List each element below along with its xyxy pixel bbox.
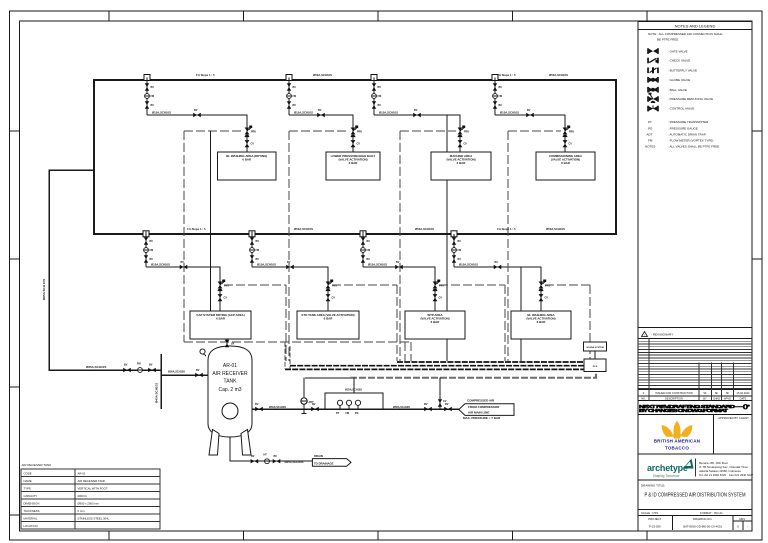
svg-text:FM: FM — [458, 249, 462, 252]
svg-text:FM: FM — [378, 95, 382, 98]
svg-text:TYPE: TYPE — [24, 487, 31, 491]
svg-text:BV: BV — [499, 104, 503, 107]
svg-text:BV: BV — [424, 403, 428, 406]
svg-text:1% Slope 1 : 5: 1% Slope 1 : 5 — [497, 73, 516, 77]
svg-text:Ø50A,SCH10S: Ø50A,SCH10S — [313, 73, 332, 77]
svg-text:NOTES: NOTES — [645, 144, 655, 148]
svg-text:Ø50A,SCH10S: Ø50A,SCH10S — [415, 227, 434, 231]
svg-text:BV: BV — [367, 258, 371, 261]
svg-text:SV: SV — [231, 343, 235, 346]
svg-text:6 BAR: 6 BAR — [537, 320, 547, 324]
svg-text:THICKNESS: THICKNESS — [24, 509, 40, 513]
svg-text:Ø65A,SCH10S: Ø65A,SCH10S — [393, 406, 410, 409]
svg-text:BE PTFE FREE: BE PTFE FREE — [657, 37, 678, 41]
svg-text:PRV: PRV — [569, 131, 574, 134]
svg-text:: BUTTERFLY VALVE: : BUTTERFLY VALVE — [668, 69, 697, 73]
svg-text:-: - — [747, 525, 748, 529]
svg-text:LOCATION: LOCATION — [24, 524, 38, 528]
svg-text:BV: BV — [396, 261, 400, 264]
svg-text:CV: CV — [464, 143, 468, 146]
svg-text:: FLOW METER (VORTEX TYPE): : FLOW METER (VORTEX TYPE) — [668, 139, 713, 143]
svg-text:BV: BV — [149, 364, 153, 367]
svg-text:CV: CV — [545, 297, 549, 300]
svg-text:FM: FM — [346, 412, 350, 415]
svg-text:6 BAR: 6 BAR — [324, 317, 334, 321]
svg-text:Tel +62 21 2940 6226 Fax 02: Tel +62 21 2940 6226 Fax 021 2940 6227 — [699, 473, 754, 477]
svg-text:FM: FM — [137, 363, 141, 366]
svg-text:BV: BV — [293, 104, 297, 107]
svg-text:P-23-039: P-23-039 — [649, 525, 661, 529]
svg-text:SCADA SYSTEM: SCADA SYSTEM — [586, 346, 603, 349]
svg-text:: BALL VALVE: : BALL VALVE — [668, 88, 687, 92]
svg-text:BV: BV — [150, 240, 154, 243]
svg-text:Shaping Tomorrow: Shaping Tomorrow — [653, 474, 680, 478]
svg-text:Cap. 2 m3: Cap. 2 m3 — [218, 387, 241, 393]
svg-text:2000 ltr: 2000 ltr — [78, 494, 87, 498]
svg-text:Ø25A,SCH10S: Ø25A,SCH10S — [285, 460, 304, 464]
svg-text:DRAWING TITLE:: DRAWING TITLE: — [641, 484, 665, 488]
svg-text:FM: FM — [499, 95, 503, 98]
svg-text:Ø15A,SCH10S: Ø15A,SCH10S — [151, 263, 170, 267]
svg-text:: PRESSURE GAUGE: : PRESSURE GAUGE — [668, 127, 698, 131]
svg-text:BV: BV — [196, 369, 200, 372]
svg-text:BRITISH AMERICAN: BRITISH AMERICAN — [654, 439, 701, 444]
svg-text:Ø50A,SCH10S: Ø50A,SCH10S — [168, 371, 185, 374]
svg-text:: CONTROL VALVE: : CONTROL VALVE — [668, 106, 694, 110]
svg-text:1% Slope 1 : 5: 1% Slope 1 : 5 — [196, 73, 215, 77]
svg-text:APVD: APVD — [724, 396, 731, 400]
svg-text:6 BAR: 6 BAR — [561, 161, 571, 165]
svg-text:: PRESSURE REDUCING VALVE: : PRESSURE REDUCING VALVE — [668, 97, 713, 101]
svg-text:REV: REV — [740, 517, 746, 521]
svg-text:FM: FM — [151, 95, 155, 98]
svg-text:6 mm: 6 mm — [78, 509, 86, 513]
svg-text:BV: BV — [458, 258, 462, 261]
svg-text:HT: HT — [264, 454, 268, 457]
svg-text:BV: BV — [274, 455, 278, 458]
svg-text:Ø15A,SCH10S: Ø15A,SCH10S — [379, 111, 398, 115]
svg-text:ADT: ADT — [647, 133, 653, 137]
svg-text:Ø15A,SCH10S: Ø15A,SCH10S — [152, 111, 171, 115]
svg-text:DESCRIPTION: DESCRIPTION — [665, 396, 683, 400]
svg-text:BAT-IDN0-OD-ME-05-CA-4001: BAT-IDN0-OD-ME-05-CA-4001 — [683, 525, 722, 529]
svg-text:BY: BY — [703, 396, 707, 400]
svg-text:Ø50A,SCH10S: Ø50A,SCH10S — [294, 227, 313, 231]
svg-text:DRAWING NO.: DRAWING NO. — [693, 517, 712, 521]
svg-text:STAINLESS STEEL 304L: STAINLESS STEEL 304L — [78, 517, 110, 521]
svg-text:BV: BV — [150, 258, 154, 261]
svg-text:Ø15A,SCH10S: Ø15A,SCH10S — [500, 111, 519, 115]
svg-text:Ø900 x 2000 mm: Ø900 x 2000 mm — [78, 502, 100, 506]
svg-text:BV: BV — [256, 258, 260, 261]
svg-text:AIR MAIN LINE: AIR MAIN LINE — [468, 411, 489, 415]
svg-text:BV: BV — [312, 403, 316, 406]
svg-text:PG: PG — [355, 412, 359, 415]
svg-text:Ø15A,SCH10S: Ø15A,SCH10S — [368, 263, 387, 267]
svg-text:15.04.2024: 15.04.2024 — [737, 391, 751, 395]
svg-text:Ø50A,SCH10S: Ø50A,SCH10S — [546, 227, 565, 231]
svg-text:SF: SF — [726, 391, 730, 395]
svg-text:CHKD: CHKD — [713, 396, 720, 400]
svg-text:AIR RECEIVER TANK: AIR RECEIVER TANK — [78, 479, 106, 483]
svg-text:TANK: TANK — [224, 379, 238, 385]
svg-text:CV: CV — [224, 297, 228, 300]
svg-text:BV: BV — [499, 86, 503, 89]
svg-text:PT: PT — [648, 120, 652, 124]
svg-text:BV: BV — [151, 86, 155, 89]
svg-text:CV: CV — [439, 297, 443, 300]
svg-text:FM: FM — [150, 249, 154, 252]
svg-text:1% Slope 1 : 5: 1% Slope 1 : 5 — [497, 227, 516, 231]
svg-text:BV: BV — [458, 240, 462, 243]
svg-text:Ø15A,SCH10S: Ø15A,SCH10S — [459, 263, 478, 267]
svg-text:FM: FM — [293, 95, 297, 98]
svg-text:BV: BV — [318, 109, 322, 112]
svg-text:PRV: PRV — [251, 131, 256, 134]
svg-text:AIR RECEIVER: AIR RECEIVER — [212, 371, 248, 377]
svg-text:FM: FM — [648, 139, 653, 143]
svg-text:FROM COMPRESSOR: FROM COMPRESSOR — [468, 405, 500, 409]
svg-text:DIMENSION: DIMENSION — [24, 502, 40, 506]
svg-text:: ALL VALVES SHALL BE PTFE FR: : ALL VALVES SHALL BE PTFE FREE — [668, 144, 719, 148]
svg-text:PROJECT: PROJECT — [648, 517, 661, 521]
svg-text:: GATE VALVE: : GATE VALVE — [668, 49, 688, 53]
svg-text:6 BAR: 6 BAR — [216, 317, 226, 321]
svg-text:6 BAR: 6 BAR — [242, 158, 252, 162]
svg-text:NOTE : ALL COMPRESSED AIR CON: NOTE : ALL COMPRESSED AIR CONNECTION SHA… — [648, 32, 723, 36]
svg-text:BV: BV — [293, 86, 297, 89]
svg-text:CAPACITY: CAPACITY — [24, 494, 38, 498]
svg-text:DATE: DATE — [740, 396, 747, 400]
svg-text:CV: CV — [569, 143, 573, 146]
svg-text:BV: BV — [378, 86, 382, 89]
svg-text:BV: BV — [255, 403, 259, 406]
svg-text:Ø40A SCH10S: Ø40A SCH10S — [155, 383, 159, 403]
svg-text:PRV: PRV — [464, 131, 469, 134]
svg-text:BV: BV — [414, 109, 418, 112]
svg-text:PG: PG — [648, 127, 653, 131]
svg-text:VERTICAL WITH FOOT: VERTICAL WITH FOOT — [78, 487, 108, 491]
svg-text:- REVISIONARY: - REVISIONARY — [651, 333, 673, 337]
svg-text:ISSUED FOR CONSTRUCTION: ISSUED FOR CONSTRUCTION — [655, 391, 693, 395]
svg-text:6 BAR: 6 BAR — [431, 320, 441, 324]
svg-text:Ø50A,SCH10S: Ø50A,SCH10S — [549, 73, 568, 77]
svg-text:BV: BV — [527, 109, 531, 112]
svg-text:DCS: DCS — [593, 366, 598, 368]
svg-text:COMPRESSED AIR: COMPRESSED AIR — [467, 398, 495, 402]
svg-text:NO.: NO. — [641, 396, 646, 400]
svg-text:Ø65A,SCH10S: Ø65A,SCH10S — [86, 365, 106, 369]
svg-text:TOBACCO: TOBACCO — [665, 445, 689, 450]
svg-text:AIR RECEIVER TANK: AIR RECEIVER TANK — [22, 463, 52, 467]
svg-text:MATERIAL: MATERIAL — [24, 517, 38, 521]
svg-text:BV: BV — [256, 240, 260, 243]
svg-text:SF: SF — [703, 391, 707, 395]
svg-text:NOTES AND LEGEND: NOTES AND LEGEND — [675, 24, 716, 29]
svg-text:BV: BV — [445, 403, 449, 406]
svg-text:AR-01: AR-01 — [223, 363, 237, 369]
svg-text:6 BAR: 6 BAR — [349, 161, 359, 165]
svg-text:NAME: NAME — [24, 479, 32, 483]
svg-text:CODE: CODE — [24, 472, 32, 476]
svg-text:: CHECK VALVE: : CHECK VALVE — [668, 59, 690, 63]
svg-text:Ø65A SCH 10S: Ø65A SCH 10S — [42, 279, 46, 300]
svg-text:CV: CV — [251, 143, 255, 146]
svg-text:BV: BV — [378, 104, 382, 107]
svg-text:BV: BV — [124, 364, 128, 367]
svg-text:: PRESSURE TRANSMITTER: : PRESSURE TRANSMITTER — [668, 120, 709, 124]
svg-text:MAX. PRESSURE = 7 BAR: MAX. PRESSURE = 7 BAR — [463, 416, 501, 420]
svg-text:PT: PT — [336, 412, 340, 415]
svg-text:BV: BV — [151, 104, 155, 107]
svg-text:: GLOBE VALVE: : GLOBE VALVE — [668, 78, 690, 82]
svg-text:SCALE : NTS: SCALE : NTS — [641, 511, 658, 515]
svg-text:FORMAT : ISO A1: FORMAT : ISO A1 — [700, 511, 723, 515]
svg-text:P & ID COMPRESSED AIR DISTRIBU: P & ID COMPRESSED AIR DISTRIBUTION SYSTE… — [645, 492, 746, 498]
svg-text:Ø15A,SCH10S: Ø15A,SCH10S — [257, 263, 276, 267]
svg-text:BV: BV — [495, 261, 499, 264]
svg-text:APPROVED BY CLIENT: APPROVED BY CLIENT — [718, 416, 749, 420]
svg-text:FM: FM — [256, 249, 260, 252]
svg-text:6 BAR: 6 BAR — [457, 161, 467, 165]
svg-text:FM: FM — [367, 249, 371, 252]
svg-text:TO DRAINAGE: TO DRAINAGE — [314, 462, 334, 466]
svg-text:Ø15A,SCH10S: Ø15A,SCH10S — [294, 111, 313, 115]
svg-text:1% Slope 1 : 5: 1% Slope 1 : 5 — [187, 227, 206, 231]
svg-text:CV: CV — [357, 143, 361, 146]
svg-text:AR-01: AR-01 — [78, 472, 86, 476]
svg-text:BY CHANGES ON DWG.FORMAT: BY CHANGES ON DWG.FORMAT — [639, 408, 728, 413]
svg-text:BV: BV — [367, 240, 371, 243]
svg-text:-: - — [78, 524, 79, 528]
svg-text:CV: CV — [332, 297, 336, 300]
svg-text:DRAIN: DRAIN — [314, 454, 323, 458]
svg-text:SF: SF — [715, 391, 719, 395]
svg-text:PRV: PRV — [357, 131, 362, 134]
svg-text:BV: BV — [194, 109, 198, 112]
svg-text:archetype: archetype — [647, 463, 688, 473]
svg-text:BV: BV — [251, 455, 255, 458]
svg-text:Ø50A,SCH10S: Ø50A,SCH10S — [269, 406, 286, 409]
svg-text:: AUTOMATIC DRAIN TRAP: : AUTOMATIC DRAIN TRAP — [668, 133, 706, 137]
